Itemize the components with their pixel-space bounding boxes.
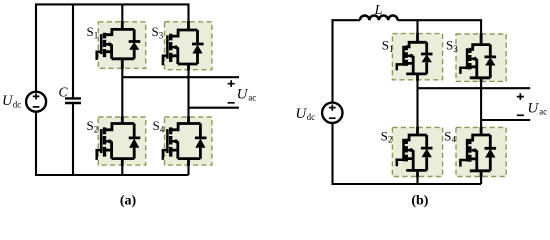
MOSFET S3 source wiring xyxy=(170,47,198,70)
wire: circuit (b) top bus left with source leg xyxy=(333,20,361,103)
wire: circuit (b) left leg midpoint xyxy=(416,80,418,128)
MOSFET S3 channel bar xyxy=(169,34,172,62)
polarity - (a) xyxy=(228,102,235,104)
svg-text:S3: S3 xyxy=(152,24,164,40)
svg-text:dc: dc xyxy=(307,112,316,122)
switch S2 dashed cell box xyxy=(98,117,145,165)
MOSFET S2' gate xyxy=(397,139,404,167)
MOSFET S4' body arrow xyxy=(472,149,477,152)
switch S3 dashed cell box xyxy=(165,22,212,70)
wire: circuit (a) top DC bus xyxy=(36,4,189,91)
svg-text:S1: S1 xyxy=(87,24,99,40)
switch S4 dashed cell box xyxy=(165,117,212,165)
MOSFET S1 channel bar xyxy=(103,33,106,57)
MOSFET S2' source wiring xyxy=(406,150,427,177)
svg-text:L: L xyxy=(374,3,383,18)
wire: circuit (a) bottom DC bus xyxy=(36,112,189,175)
MOSFET S4 gate xyxy=(163,129,168,160)
svg-text:ac: ac xyxy=(248,93,256,103)
svg-text:C: C xyxy=(59,85,69,100)
voltage source Udc (a) xyxy=(26,92,46,112)
MOSFET S4 source wiring xyxy=(170,141,201,166)
MOSFET S4' drain wiring xyxy=(469,127,490,141)
MOSFET S3' drain wiring xyxy=(469,33,490,49)
MOSFET S2' body arrow xyxy=(408,149,413,152)
switch S1 dashed cell box xyxy=(98,22,145,69)
voltage source Udc (b) xyxy=(322,103,342,123)
polarity + (a) xyxy=(228,80,235,87)
svg-text:ac: ac xyxy=(539,107,547,117)
MOSFET S3' channel bar xyxy=(468,49,471,70)
MOSFET S2 gate xyxy=(97,129,102,160)
wire: circuit (b) AC output bottom xyxy=(481,119,530,121)
body diode of S3' xyxy=(485,45,497,78)
MOSFET S1 gate xyxy=(97,34,102,60)
MOSFET S3 drain wiring xyxy=(170,21,198,36)
MOSFET S4' source wiring xyxy=(470,150,491,177)
polarity - (b) xyxy=(517,114,524,116)
switch S2' dashed cell box xyxy=(392,127,442,176)
MOSFET S2 body arrow xyxy=(106,140,111,143)
MOSFET S1 drain wiring xyxy=(104,21,135,35)
wire: circuit (b) top bus right of inductor xyxy=(398,20,482,34)
svg-text:(b): (b) xyxy=(411,194,428,209)
MOSFET S4 drain wiring xyxy=(170,116,201,130)
MOSFET S3' body arrow xyxy=(472,58,477,61)
polarity + (b) xyxy=(517,93,524,100)
wire: circuit (b) legs to bottom bus xyxy=(418,177,482,185)
MOSFET S1' drain wiring xyxy=(405,33,426,47)
MOSFET S3' gate xyxy=(460,48,467,74)
wire: circuit (b) bottom bus xyxy=(333,123,482,184)
MOSFET S3' source wiring xyxy=(470,59,491,83)
wire: circuit (a) right leg midpoint xyxy=(187,70,189,117)
wire: circuit (a) left leg midpoint xyxy=(121,68,123,117)
MOSFET S3 gate xyxy=(163,35,168,65)
svg-text:U: U xyxy=(295,106,307,122)
svg-text:S4: S4 xyxy=(444,128,456,144)
MOSFET S2 source wiring xyxy=(104,141,135,166)
svg-text:S2: S2 xyxy=(381,128,393,144)
body diode of S4' xyxy=(485,135,497,171)
wire: circuit (b) right leg midpoint xyxy=(480,81,482,127)
body diode of S3 xyxy=(192,30,204,64)
MOSFET S2 drain wiring xyxy=(104,116,135,130)
switch S3' dashed cell box xyxy=(456,34,506,81)
body diode of S4 xyxy=(195,124,207,159)
MOSFET S4' gate xyxy=(460,139,467,167)
capacitor C xyxy=(72,4,74,175)
switch S1' dashed cell box xyxy=(392,34,442,80)
wire: circuit (a) S1 leg from top bus xyxy=(121,4,123,21)
MOSFET S1' body arrow xyxy=(408,55,413,58)
inductor L xyxy=(360,15,398,20)
MOSFET S4 body arrow xyxy=(173,140,178,143)
MOSFET S2 channel bar xyxy=(103,127,106,156)
MOSFET S3 body arrow xyxy=(173,46,178,49)
MOSFET S1' source wiring xyxy=(406,56,427,81)
MOSFET S4' channel bar xyxy=(468,139,471,161)
wire: circuit (a) S2,S4 legs to bottom bus xyxy=(122,165,188,175)
body diode of S1' xyxy=(421,42,433,74)
wire: circuit (b) AC output top xyxy=(418,87,531,89)
svg-text:U: U xyxy=(237,86,249,102)
body diode of S2 xyxy=(129,124,141,159)
svg-text:(a): (a) xyxy=(120,194,137,209)
MOSFET S1 body arrow xyxy=(106,43,111,46)
MOSFET S4 channel bar xyxy=(169,127,172,156)
MOSFET S1' gate xyxy=(397,46,404,70)
body diode of S1 xyxy=(129,29,141,58)
MOSFET S1' channel bar xyxy=(405,46,408,66)
svg-text:U: U xyxy=(527,100,539,116)
MOSFET S2' drain wiring xyxy=(405,127,426,140)
MOSFET S1 source wiring xyxy=(104,44,135,69)
switch S4' dashed cell box xyxy=(456,127,506,176)
MOSFET S2' channel bar xyxy=(405,139,408,161)
svg-text:S2: S2 xyxy=(87,118,99,134)
wire: circuit (a) AC output bottom xyxy=(189,107,240,109)
svg-text:S4: S4 xyxy=(153,118,165,134)
svg-text:dc: dc xyxy=(13,99,21,109)
wire: circuit (a) AC output top xyxy=(122,76,239,78)
body diode of S2' xyxy=(421,135,433,170)
